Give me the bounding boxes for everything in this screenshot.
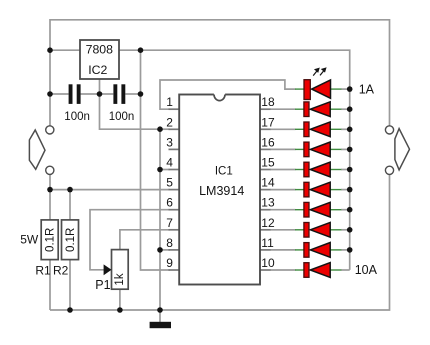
wire green LED 1 cathode lead (295, 88, 304, 90)
svg-text:0.1R: 0.1R (45, 228, 57, 252)
right connector X2 bottom circle (385, 166, 393, 174)
pin 11 stub (260, 249, 271, 251)
wire pin 1 to LED 1 (160, 80, 296, 109)
pin 16 stub (260, 148, 271, 150)
svg-text:17: 17 (261, 115, 275, 129)
svg-text:11: 11 (261, 236, 274, 250)
svg-text:10A: 10A (355, 263, 378, 277)
wire green LED 3 anode lead (330, 128, 341, 130)
wire 7808 input (50, 49, 80, 51)
svg-text:3: 3 (166, 135, 173, 149)
pin 14 stub (260, 189, 271, 191)
wire R2 top (69, 190, 71, 220)
capacitor C1 plate A (69, 84, 73, 104)
LED D10 triangle (310, 263, 330, 278)
svg-text:7: 7 (166, 216, 173, 230)
node cap row right junction (138, 91, 144, 97)
wire LED 10 anode to column (341, 269, 350, 271)
right connector X2 top circle (385, 126, 393, 134)
LED D5 triangle (310, 162, 330, 177)
wire between capacitors (81, 93, 114, 95)
LED D1 cathode bar (304, 80, 310, 100)
svg-text:13: 13 (261, 196, 275, 210)
svg-text:LM3914: LM3914 (199, 184, 244, 198)
node LED column row 1 (347, 86, 353, 92)
svg-text:1: 1 (166, 95, 173, 109)
wire pin 12 to LED 8 (270, 229, 296, 231)
wire green LED 7 anode lead (330, 209, 341, 211)
wire LED 3 anode to column (341, 128, 350, 130)
node LED column row 3 (347, 127, 353, 133)
wire green LED 9 anode lead (330, 249, 341, 251)
LED D7 cathode bar (304, 202, 309, 217)
wire green LED 4 anode lead (330, 148, 341, 150)
wire green LED 10 anode lead (330, 269, 341, 271)
wire P1 bottom (119, 289, 121, 310)
right connector X2 arrow (395, 129, 410, 170)
LED D9 triangle (310, 243, 330, 258)
node ground junction (157, 307, 163, 313)
svg-text:100n: 100n (109, 111, 135, 123)
pin 13 stub (260, 209, 271, 211)
wire R2 bottom (69, 260, 71, 311)
pin 9 stub (169, 269, 180, 271)
LED D1 light arrows (313, 68, 326, 75)
node cap row left junction (47, 91, 53, 97)
wire pin 10 to LED 10 (270, 269, 296, 271)
wire P1 wiper to pin 6 (90, 210, 170, 270)
svg-text:R2: R2 (53, 264, 69, 278)
node pin 2 ground junction (157, 126, 163, 132)
pin 12 stub (260, 229, 271, 231)
LED D2 cathode bar (304, 102, 309, 117)
svg-text:IC2: IC2 (88, 63, 107, 77)
svg-text:14: 14 (261, 176, 275, 190)
wire pin 16 to LED 4 (270, 148, 296, 150)
LED D6 cathode bar (304, 182, 309, 197)
node cap row middle junction (97, 91, 103, 97)
svg-text:15: 15 (261, 156, 275, 170)
LED D2 triangle (310, 102, 330, 117)
node P1 bottom junction (117, 307, 123, 313)
node LED column row 8 (347, 227, 353, 233)
svg-text:5: 5 (166, 176, 173, 190)
wire LED 6 anode to column (341, 189, 350, 191)
wire green LED 1 anode lead (330, 88, 341, 90)
wire LED 1 anode to column (341, 88, 350, 90)
node LED column row 7 (347, 207, 353, 213)
wire green LED 2 anode lead (330, 108, 341, 110)
pin 6 stub (169, 209, 180, 211)
pin 15 stub (260, 169, 271, 171)
wire ground stem (159, 310, 161, 322)
wire LED 7 anode to column (341, 209, 350, 211)
pin 18 stub (260, 108, 271, 110)
resistor R1 body (41, 220, 58, 260)
LED D3 cathode bar (304, 122, 309, 137)
wire pin 14 to LED 6 (270, 189, 296, 191)
svg-text:1A: 1A (359, 82, 375, 96)
wire pin 18 to LED 2 (270, 108, 296, 110)
pin 7 stub (169, 229, 180, 231)
LED D4 cathode bar (304, 142, 309, 157)
pin 2 stub (169, 128, 180, 130)
pin 10 stub (260, 269, 271, 271)
wire bottom rail (50, 175, 390, 311)
wire LED 9 anode to column (341, 249, 350, 251)
node LED column row 4 (347, 147, 353, 153)
IC1 notch (214, 93, 225, 96)
node LED column row 9 (347, 247, 353, 253)
capacitor C1 plate B (77, 84, 81, 104)
wire LED 8 anode to column (341, 229, 350, 231)
node pin 4 ground junction (157, 167, 163, 173)
wire green LED 7 cathode lead (295, 209, 304, 211)
svg-text:5W: 5W (20, 233, 39, 247)
svg-text:2: 2 (166, 115, 173, 129)
svg-text:9: 9 (166, 256, 173, 270)
left connector X1 top circle (46, 126, 54, 134)
svg-text:6: 6 (166, 196, 173, 210)
wire 7808 output to LED anode column (119, 50, 350, 270)
pin 8 stub (169, 249, 180, 251)
left connector X1 bottom circle (46, 166, 54, 174)
svg-text:1k: 1k (114, 273, 126, 285)
wire top supply rail (50, 20, 390, 126)
wire P1 top to pin 7 (120, 230, 170, 250)
pin 3 stub (169, 148, 180, 150)
svg-text:R1: R1 (35, 264, 51, 278)
resistor R2 body (62, 220, 79, 260)
pin 5 stub (169, 189, 180, 191)
wire 7808 ground to pin 2 net (100, 79, 161, 129)
potentiometer P1 wiper arrow (104, 264, 112, 275)
svg-text:4: 4 (166, 156, 173, 170)
LED D9 cathode bar (304, 243, 309, 258)
wire pin 13 to LED 7 (270, 209, 296, 211)
capacitor C2 plate A (113, 84, 117, 104)
LED D10 cathode bar (304, 263, 309, 278)
wire green LED 8 cathode lead (295, 229, 304, 231)
LED D6 triangle (310, 182, 330, 197)
wire regulator output to pin 9 (141, 50, 170, 270)
capacitor C2 plate B (121, 84, 125, 104)
wire pin 15 to LED 5 (270, 169, 296, 171)
wire left connector bottom to R1 (49, 174, 51, 220)
svg-text:P1: P1 (95, 278, 110, 292)
wire green LED 10 cathode lead (295, 269, 304, 271)
node 7808 input junction (47, 47, 53, 53)
node regulator output junction (138, 47, 144, 53)
node R2 bottom junction (67, 307, 73, 313)
svg-text:7808: 7808 (86, 42, 114, 56)
wire LED 2 anode to column (341, 108, 350, 110)
LED D4 triangle (310, 142, 330, 157)
LED D5 cathode bar (304, 162, 309, 177)
svg-text:16: 16 (261, 135, 275, 149)
wire green LED 2 cathode lead (295, 108, 304, 110)
node pin 5 R1 junction (47, 187, 53, 193)
wire green LED 5 cathode lead (295, 169, 304, 171)
wire green LED 9 cathode lead (295, 249, 304, 251)
svg-text:12: 12 (261, 216, 275, 230)
LED D8 cathode bar (304, 223, 309, 238)
pin 17 stub (260, 128, 271, 130)
node LED column row 6 (347, 187, 353, 193)
wire green LED 3 cathode lead (295, 128, 304, 130)
left connector X1 arrow (29, 130, 45, 169)
node LED column row 2 (347, 106, 353, 112)
svg-text:8: 8 (166, 236, 173, 250)
wire LED 4 anode to column (341, 148, 350, 150)
pin 1 stub (169, 108, 180, 110)
wire pin 4 link (160, 169, 170, 171)
node pin 5 R2 junction (67, 187, 73, 193)
svg-text:100n: 100n (64, 111, 90, 123)
wire green LED 4 cathode lead (295, 148, 304, 150)
wire pin 11 to LED 9 (270, 249, 296, 251)
wire pin 8 link (160, 249, 170, 251)
wire LED 5 anode to column (341, 169, 350, 171)
wire R1 bottom (49, 260, 51, 311)
wire green LED 8 anode lead (330, 229, 341, 231)
svg-text:IC1: IC1 (215, 166, 233, 178)
wire pin 2 link (160, 128, 170, 130)
wire green LED 6 anode lead (330, 189, 341, 191)
wire capacitor row (50, 93, 69, 95)
wire green LED 5 anode lead (330, 169, 341, 171)
potentiometer P1 body (112, 250, 129, 290)
LED D8 triangle (310, 222, 330, 237)
voltage regulator IC2 7808 (80, 40, 119, 79)
LED D7 triangle (310, 202, 330, 217)
wire ground bus vertical (159, 129, 161, 310)
wire capacitor row right (125, 93, 140, 95)
LED D3 triangle (310, 122, 330, 137)
svg-text:18: 18 (261, 95, 275, 109)
wire green LED 6 cathode lead (295, 189, 304, 191)
svg-text:0.1R: 0.1R (65, 228, 77, 252)
node pin 8 ground junction (157, 247, 163, 253)
LED D1 triangle (312, 80, 331, 98)
ground symbol (150, 322, 171, 328)
op IC1 LM3914 body (179, 95, 260, 285)
wire pin 17 to LED 3 (270, 128, 296, 130)
svg-text:10: 10 (261, 256, 275, 270)
wire pin 5 signal input (50, 189, 170, 191)
node LED column row 5 (347, 167, 353, 173)
pin 4 stub (169, 169, 180, 171)
